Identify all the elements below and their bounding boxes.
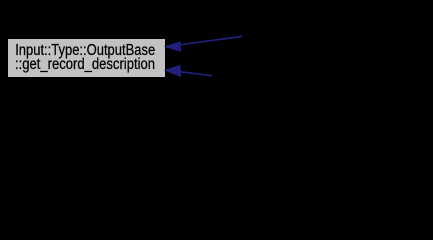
node box Input::Type::OutputBase::get_record_description [8, 39, 166, 78]
wire caller edge 1 (top) [165, 36, 242, 51]
wire caller edge 2 (bottom) [165, 66, 212, 77]
svg-text:::get_record_description: ::get_record_description [15, 56, 155, 73]
